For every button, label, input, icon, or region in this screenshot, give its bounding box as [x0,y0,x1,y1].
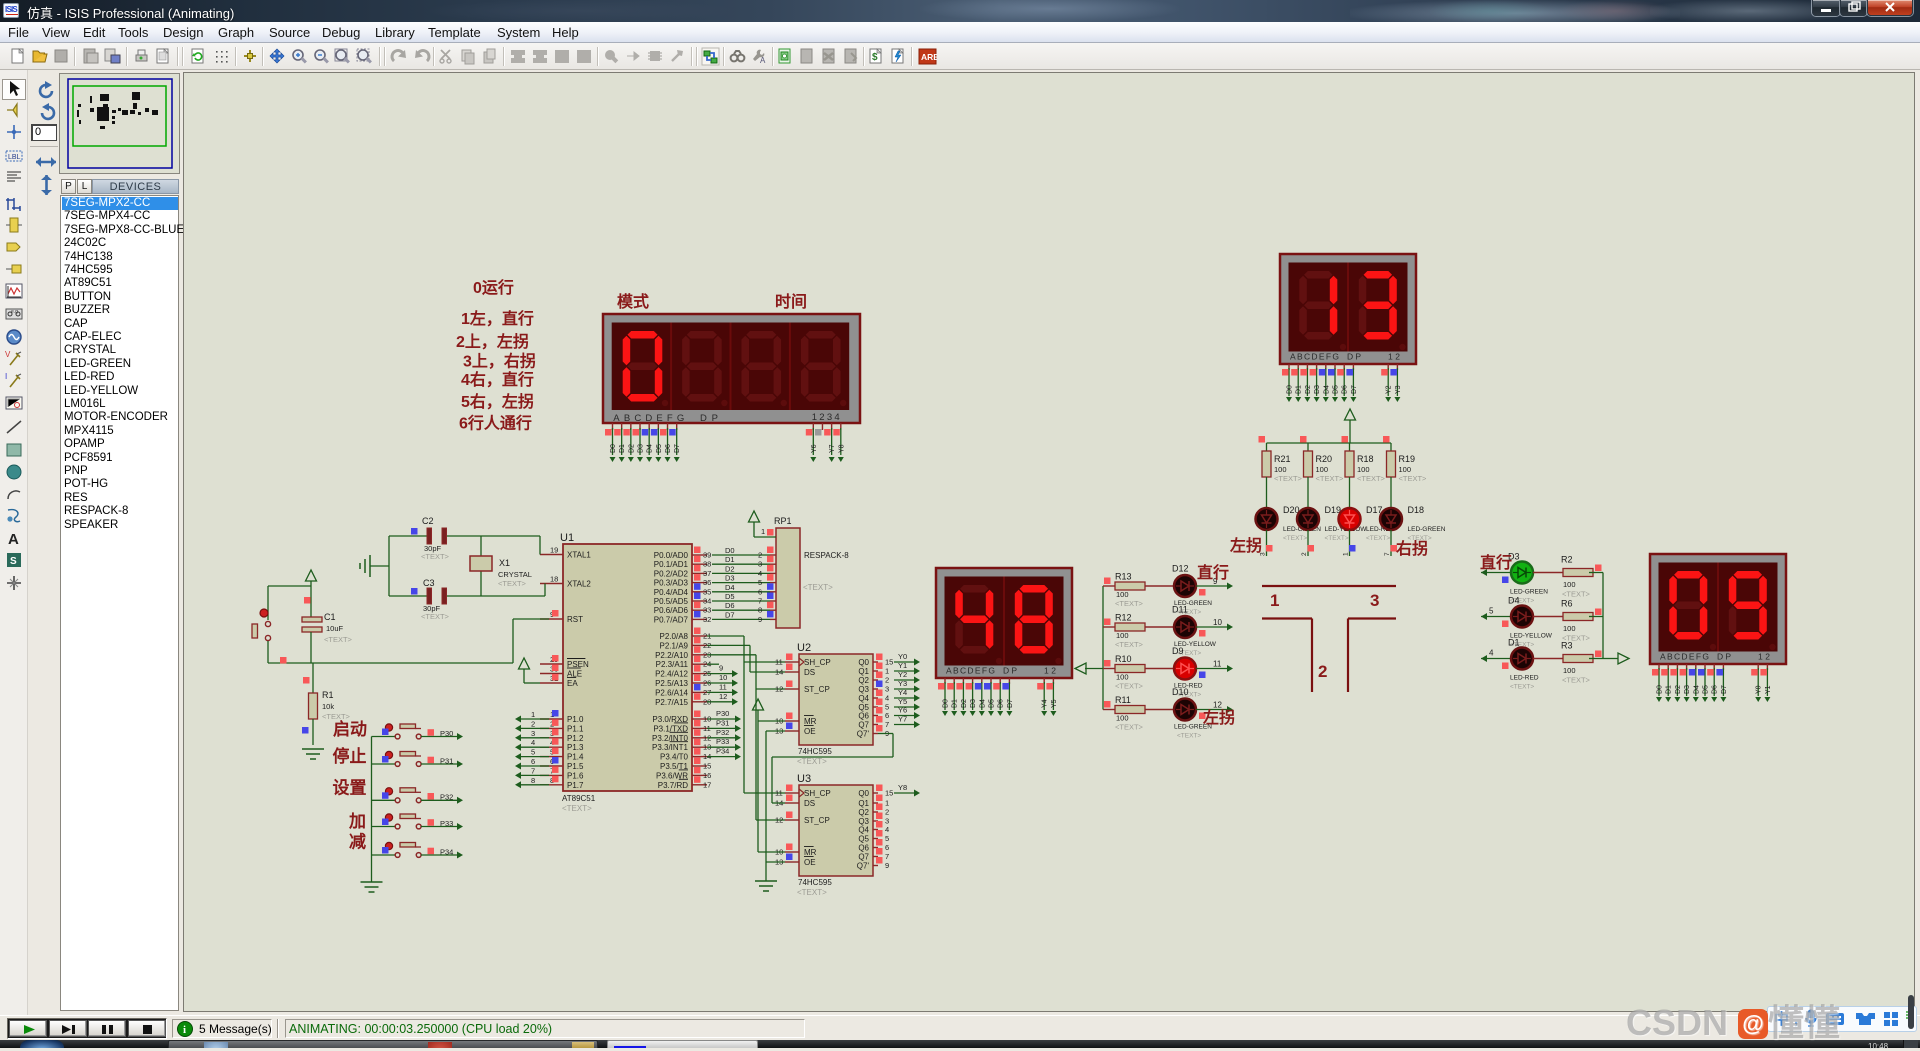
svg-text:ST_CP: ST_CP [804,816,830,825]
svg-text:1: 1 [761,527,765,536]
svg-text:10: 10 [1213,618,1222,627]
svg-text:R3: R3 [1561,641,1573,651]
svg-text:<TEXT>: <TEXT> [1115,682,1144,691]
svg-text:Y4: Y4 [1042,699,1049,708]
svg-text:9: 9 [758,615,762,624]
svg-text:P2.4/A12: P2.4/A12 [655,670,688,679]
svg-text:R1: R1 [322,690,334,700]
svg-text:P31: P31 [440,756,453,765]
svg-text:Y3: Y3 [1395,385,1402,394]
svg-text:R19: R19 [1399,454,1416,464]
svg-text:15: 15 [885,789,893,798]
svg-text:15: 15 [703,762,711,771]
svg-text:D2: D2 [1305,385,1312,394]
svg-text:MR: MR [804,848,817,857]
svg-text:LBL: LBL [8,154,21,161]
svg-text:D2: D2 [1675,685,1682,694]
svg-text:14: 14 [775,668,783,677]
svg-text:P33: P33 [716,737,729,746]
svg-text:ABCDEFG: ABCDEFG [1290,352,1339,362]
svg-text:D7: D7 [725,610,735,619]
svg-text:D4: D4 [979,699,986,708]
svg-text:4: 4 [1489,649,1494,658]
svg-text:Y2: Y2 [898,670,907,679]
svg-text:1: 1 [1343,552,1350,556]
svg-text:右拐: 右拐 [1396,539,1428,558]
svg-text:R18: R18 [1357,454,1374,464]
svg-text:R20: R20 [1316,454,1333,464]
svg-text:P32: P32 [440,793,453,802]
svg-text:7: 7 [885,720,889,729]
svg-text:<TEXT>: <TEXT> [1357,474,1386,483]
svg-text:2上，左拐: 2上，左拐 [456,332,529,351]
svg-text:R12: R12 [1115,613,1132,623]
svg-text:D0: D0 [1657,685,1664,694]
svg-text:4: 4 [885,825,889,834]
svg-text:10k: 10k [322,702,334,711]
svg-text:6: 6 [758,587,762,596]
svg-text:Q2: Q2 [858,676,869,685]
svg-text:D3: D3 [725,574,735,583]
svg-text:11: 11 [1213,660,1222,669]
svg-text:SH_CP: SH_CP [804,789,831,798]
svg-text:<TEXT>: <TEXT> [1510,684,1534,691]
svg-text:3: 3 [885,685,889,694]
svg-text:1: 1 [531,710,535,719]
svg-text:P0.7/AD7: P0.7/AD7 [654,615,689,624]
svg-text:39: 39 [703,551,711,560]
svg-text:Y3: Y3 [898,679,907,688]
svg-text:D4: D4 [647,444,654,453]
svg-text:<TEXT>: <TEXT> [498,579,527,588]
svg-text:2: 2 [885,808,889,817]
svg-text:P1.0: P1.0 [567,715,584,724]
svg-text:P1.4: P1.4 [567,753,584,762]
svg-text:S: S [10,556,17,567]
svg-text:P1.6: P1.6 [567,771,584,780]
svg-text:Q0: Q0 [858,789,869,798]
svg-text:15: 15 [885,658,893,667]
svg-text:6: 6 [885,711,889,720]
svg-text:P1.3: P1.3 [567,743,584,752]
svg-text:<TEXT>: <TEXT> [797,888,827,897]
svg-text:Y5: Y5 [1051,699,1058,708]
svg-text:D7: D7 [674,444,681,453]
svg-text:7: 7 [885,852,889,861]
svg-text:34: 34 [703,597,711,606]
svg-text:<TEXT>: <TEXT> [803,583,833,592]
svg-text:时间: 时间 [775,292,807,311]
svg-text:<TEXT>: <TEXT> [1115,640,1144,649]
svg-text:D7: D7 [1351,385,1358,394]
svg-text:Y6: Y6 [811,444,818,453]
svg-text:D7: D7 [1721,685,1728,694]
svg-text:D10: D10 [1172,687,1189,697]
svg-text:EA: EA [567,679,578,688]
svg-text:Q1: Q1 [858,799,869,808]
svg-text:9: 9 [719,664,723,673]
svg-text:P0.2/AD2: P0.2/AD2 [654,569,689,578]
svg-text:DS: DS [804,668,815,677]
svg-text:ARES: ARES [921,52,937,62]
svg-text:Q2: Q2 [858,808,869,817]
svg-text:D0: D0 [1287,385,1294,394]
svg-text:D6: D6 [1342,385,1349,394]
svg-text:D5: D5 [1333,385,1340,394]
svg-text:CRYSTAL: CRYSTAL [498,570,532,579]
svg-text:加: 加 [348,812,366,831]
svg-text:P2.0/A8: P2.0/A8 [660,632,689,641]
svg-text:100: 100 [1357,465,1370,474]
svg-text:Y6: Y6 [898,706,907,715]
svg-text:Q0: Q0 [858,658,869,667]
svg-text:<TEXT>: <TEXT> [1283,535,1307,542]
svg-text:D18: D18 [1408,505,1425,515]
svg-text:P1.2: P1.2 [567,734,584,743]
svg-text:100: 100 [1274,465,1287,474]
svg-text:100: 100 [1316,465,1329,474]
svg-text:11: 11 [775,789,783,798]
svg-text:停止: 停止 [333,746,367,766]
svg-text:18: 18 [550,575,558,584]
svg-text:D0: D0 [610,444,617,453]
svg-text:C2: C2 [422,516,434,526]
svg-text:XTAL1: XTAL1 [567,551,591,560]
svg-text:U3: U3 [797,773,811,785]
svg-text:12: 12 [775,685,783,694]
svg-text:Y2: Y2 [1386,385,1393,394]
svg-text:10uF: 10uF [326,624,344,633]
svg-text:U2: U2 [797,642,811,654]
svg-text:U1: U1 [560,532,574,544]
svg-text:左拐: 左拐 [1229,536,1262,555]
svg-text:19: 19 [550,546,558,555]
svg-text:ABCDEFG: ABCDEFG [946,666,995,676]
svg-text:P1.5: P1.5 [567,762,584,771]
svg-text:D6: D6 [998,699,1005,708]
svg-text:1: 1 [885,667,889,676]
svg-text:设置: 设置 [333,779,367,798]
svg-text:5右，左拐: 5右，左拐 [461,392,534,411]
svg-text:R11: R11 [1115,695,1131,705]
svg-text:P3.7/RD: P3.7/RD [658,781,688,790]
svg-text:100: 100 [1116,631,1129,640]
svg-text:MR: MR [804,717,817,726]
svg-text:Q7': Q7' [857,862,870,871]
svg-text:12: 12 [775,816,783,825]
svg-text:11: 11 [719,682,727,691]
svg-text:减: 减 [349,832,366,852]
svg-text:P0.3/AD3: P0.3/AD3 [654,579,689,588]
svg-text:5: 5 [531,748,535,757]
svg-text:2: 2 [758,551,762,560]
svg-text:启动: 启动 [333,719,367,739]
svg-text:Q7: Q7 [858,721,869,730]
svg-text:6: 6 [885,843,889,852]
svg-text:D17: D17 [1366,505,1383,515]
svg-text:Y7: Y7 [829,444,836,453]
svg-text:RST: RST [567,615,583,624]
svg-text:Q3: Q3 [858,685,869,694]
svg-text:D6: D6 [665,444,672,453]
svg-text:D7: D7 [1007,699,1014,708]
svg-text:100: 100 [1563,666,1576,675]
svg-text:D3: D3 [1314,385,1321,394]
svg-text:Y0: Y0 [898,652,907,661]
svg-text:SH_CP: SH_CP [804,658,831,667]
svg-text:D5: D5 [656,444,663,453]
svg-text:R2: R2 [1561,555,1573,565]
svg-text:D4: D4 [1323,385,1330,394]
svg-text:P0.0/AD0: P0.0/AD0 [654,551,689,560]
svg-text:RESPACK-8: RESPACK-8 [804,551,849,560]
svg-text:Y1: Y1 [1765,685,1772,694]
svg-text:X1: X1 [499,558,510,568]
svg-text:P1.7: P1.7 [567,781,584,790]
svg-text:5: 5 [758,578,762,587]
svg-text:0运行: 0运行 [473,278,514,297]
svg-text:Q1: Q1 [858,667,869,676]
svg-text:<TEXT>: <TEXT> [1115,723,1144,732]
svg-text:11: 11 [775,658,783,667]
svg-text:7: 7 [1384,552,1391,556]
svg-text:P31: P31 [716,718,729,727]
svg-text:35: 35 [703,587,711,596]
svg-text:2: 2 [885,676,889,685]
svg-text:D0: D0 [725,546,735,555]
svg-text:D1: D1 [1666,685,1673,694]
svg-text:直行: 直行 [1197,563,1229,582]
svg-text:P34: P34 [716,747,729,756]
svg-text:D6: D6 [725,601,735,610]
svg-text:D4: D4 [1693,685,1700,694]
svg-text:4: 4 [531,738,535,747]
svg-text:D12: D12 [1172,564,1189,574]
svg-text:D1: D1 [1508,638,1520,648]
svg-text:4右，直行: 4右，直行 [461,370,534,389]
svg-text:74HC595: 74HC595 [798,878,832,887]
svg-text:Q6: Q6 [858,844,869,853]
svg-text:7: 7 [531,766,535,775]
svg-text:3: 3 [1370,591,1379,610]
svg-text:2: 2 [1301,552,1308,556]
svg-text:Y4: Y4 [898,688,907,697]
svg-text:C3: C3 [423,578,435,588]
svg-text:9: 9 [885,861,889,870]
svg-text:D20: D20 [1283,505,1300,515]
svg-text:D1: D1 [952,699,959,708]
svg-text:3上，右拐: 3上，右拐 [463,352,536,371]
svg-text:D2: D2 [725,564,735,573]
svg-text:I: I [5,372,7,381]
svg-text:P2.6/A14: P2.6/A14 [655,688,688,697]
svg-text:12: 12 [1213,701,1222,710]
svg-text:D9: D9 [1172,646,1184,656]
svg-text:7: 7 [758,597,762,606]
svg-text:P3.3/INT1: P3.3/INT1 [652,743,689,752]
svg-text:<TEXT>: <TEXT> [1562,676,1591,685]
svg-text:32: 32 [703,615,711,624]
svg-text:5: 5 [885,834,889,843]
svg-text:P3.4/T0: P3.4/T0 [660,753,689,762]
svg-text:4: 4 [758,569,762,578]
svg-text:16: 16 [703,771,711,780]
svg-text:P2.2/A10: P2.2/A10 [655,651,688,660]
svg-text:8: 8 [531,776,535,785]
svg-text:3: 3 [758,560,762,569]
svg-text:100: 100 [1399,465,1412,474]
svg-text:LED-GREEN: LED-GREEN [1408,526,1446,533]
svg-text:R13: R13 [1115,572,1132,582]
svg-text:Y1: Y1 [898,661,907,670]
svg-text:直行: 直行 [1480,553,1512,572]
svg-text:D3: D3 [638,444,645,453]
svg-text:D3: D3 [1684,685,1691,694]
svg-text:D1: D1 [619,444,626,453]
svg-text:P1.1: P1.1 [567,724,584,733]
svg-text:<TEXT>: <TEXT> [1316,474,1345,483]
svg-text:P30: P30 [716,709,729,718]
svg-text:Q7: Q7 [858,853,869,862]
svg-text:D11: D11 [1172,605,1188,615]
svg-text:D0: D0 [943,699,950,708]
svg-text:R10: R10 [1115,654,1132,664]
svg-text:<TEXT>: <TEXT> [324,635,353,644]
svg-text:OE: OE [804,727,816,736]
svg-text:1: 1 [1270,591,1279,610]
svg-text:AT89C51: AT89C51 [562,794,596,803]
svg-text:38: 38 [703,560,711,569]
svg-text:P34: P34 [440,847,453,856]
svg-text:P0.5/AD5: P0.5/AD5 [654,597,689,606]
svg-text:ABCDEFG: ABCDEFG [1660,652,1709,662]
svg-text:$: $ [872,52,878,63]
svg-text:100: 100 [1116,714,1129,723]
svg-text:P2.7/A15: P2.7/A15 [655,698,688,707]
svg-text:2: 2 [1318,662,1327,681]
svg-text:P2.3/A11: P2.3/A11 [656,660,689,669]
svg-text:D4: D4 [1508,596,1520,606]
svg-text:Y8: Y8 [838,444,845,453]
svg-text:DS: DS [804,799,815,808]
svg-text:C1: C1 [324,612,336,622]
svg-text:D5: D5 [725,592,735,601]
svg-text:D2: D2 [628,444,635,453]
svg-text:ST_CP: ST_CP [804,685,830,694]
svg-text:6行人通行: 6行人通行 [459,414,532,433]
svg-text:D5: D5 [989,699,996,708]
svg-text:D19: D19 [1325,505,1342,515]
svg-text:A: A [8,531,19,548]
svg-text:A: A [760,56,766,65]
svg-text:1: 1 [885,799,889,808]
svg-text:P33: P33 [440,819,453,828]
svg-text:<TEXT>: <TEXT> [1399,474,1428,483]
svg-text:5: 5 [1489,607,1494,616]
svg-text:37: 37 [703,569,711,578]
svg-text:Q4: Q4 [858,826,869,835]
svg-text:D5: D5 [1703,685,1710,694]
svg-text:P0.1/AD1: P0.1/AD1 [654,560,689,569]
svg-text:Y7: Y7 [898,715,907,724]
svg-text:<TEXT>: <TEXT> [1274,474,1303,483]
svg-text:6: 6 [531,757,535,766]
svg-text:<TEXT>: <TEXT> [421,552,450,561]
svg-text:P0.4/AD4: P0.4/AD4 [654,588,689,597]
svg-text:Y0: Y0 [1756,685,1763,694]
svg-text:D1: D1 [725,555,735,564]
svg-text:<TEXT>: <TEXT> [1562,590,1591,599]
svg-text:100: 100 [1563,624,1576,633]
svg-text:D1: D1 [1296,385,1303,394]
svg-text:<TEXT>: <TEXT> [1366,535,1390,542]
svg-text:<TEXT>: <TEXT> [562,804,592,813]
svg-text:<TEXT>: <TEXT> [1115,599,1144,608]
svg-text:i: i [183,1024,186,1036]
svg-text:36: 36 [703,578,711,587]
svg-text:模式: 模式 [617,292,649,311]
svg-text:OE: OE [804,858,816,867]
svg-text:D2: D2 [961,699,968,708]
svg-text:8: 8 [758,606,762,615]
svg-text:<TEXT>: <TEXT> [1177,733,1201,740]
svg-text:P2.5/A13: P2.5/A13 [655,679,688,688]
svg-text:Q5: Q5 [858,835,869,844]
svg-text:100: 100 [1116,673,1129,682]
svg-text:12: 12 [719,692,727,701]
svg-text:LED-GREEN: LED-GREEN [1510,589,1548,596]
svg-text:Y8: Y8 [898,783,907,792]
svg-text:RP1: RP1 [774,516,792,526]
svg-text:P2.1/A9: P2.1/A9 [660,641,689,650]
svg-text:1左，直行: 1左，直行 [461,309,534,328]
svg-text:XTAL2: XTAL2 [567,580,591,589]
svg-text:R21: R21 [1274,454,1291,464]
svg-text:左拐: 左拐 [1202,708,1235,727]
svg-text:33: 33 [703,606,711,615]
svg-text:10: 10 [719,673,727,682]
svg-text:P30: P30 [440,729,453,738]
svg-text:100: 100 [1116,590,1129,599]
svg-text:Q7': Q7' [857,730,870,739]
svg-text:2: 2 [531,719,535,728]
svg-text:<TEXT>: <TEXT> [421,612,450,621]
svg-text:D4: D4 [725,583,735,592]
svg-text:P32: P32 [716,728,729,737]
svg-text:74HC595: 74HC595 [798,747,832,756]
svg-text:e.g: e.g [11,309,18,315]
svg-text:P0.6/AD6: P0.6/AD6 [654,606,689,615]
svg-text:<TEXT>: <TEXT> [797,757,827,766]
svg-text:V: V [5,350,11,359]
svg-text:4: 4 [885,694,889,703]
svg-text:100: 100 [1563,580,1576,589]
svg-text:D6: D6 [1712,685,1719,694]
svg-text:Q4: Q4 [858,694,869,703]
svg-text:R6: R6 [1561,599,1573,609]
svg-text:LED-RED: LED-RED [1510,675,1539,682]
svg-text:Q6: Q6 [858,712,869,721]
svg-text:D3: D3 [970,699,977,708]
svg-text:<TEXT>: <TEXT> [1325,535,1349,542]
svg-text:3: 3 [531,729,535,738]
svg-text:17: 17 [703,780,711,789]
